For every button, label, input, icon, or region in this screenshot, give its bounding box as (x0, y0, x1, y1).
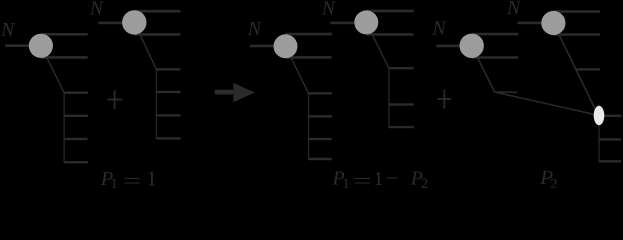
svg-text:2: 2 (421, 176, 429, 188)
svg-text:N: N (0, 20, 15, 41)
svg-text:1: 1 (373, 168, 383, 188)
svg-text:1: 1 (110, 176, 118, 188)
svg-text:N: N (321, 0, 336, 20)
svg-text:N: N (432, 19, 447, 40)
svg-text:N: N (89, 0, 104, 20)
svg-text:N: N (247, 19, 262, 40)
svg-text:1: 1 (342, 176, 350, 188)
svg-text:2: 2 (550, 176, 558, 188)
svg-text:=: = (123, 168, 141, 188)
svg-text:=: = (353, 168, 371, 188)
svg-text:N: N (506, 0, 521, 19)
svg-text:1: 1 (146, 166, 157, 188)
svg-text:−: − (386, 168, 400, 188)
